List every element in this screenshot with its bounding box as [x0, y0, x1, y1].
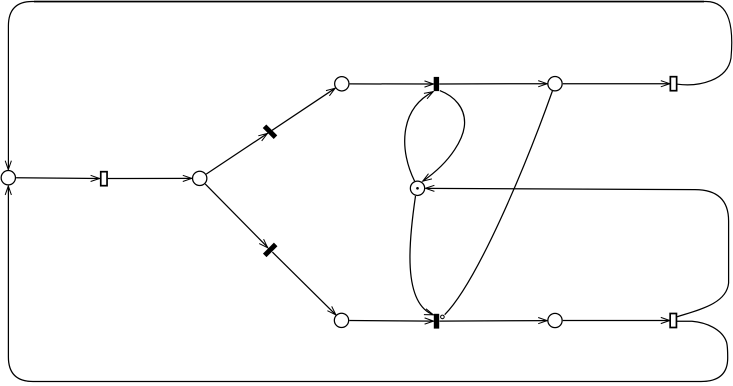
- inhibitor circle terminator at T5: [441, 315, 445, 319]
- arc T3 to P5 right curve: [423, 91, 465, 182]
- arc P4 to T6: [563, 83, 670, 85]
- arrowhead arc T2 to P3: [326, 88, 335, 96]
- transition T7 (white rectangle): [670, 314, 676, 328]
- arrowhead arc T4 to P6: [327, 306, 336, 315]
- arrowhead arc P6 to T5: [425, 318, 434, 324]
- place P3: [335, 77, 349, 91]
- arrowhead arc P2 to T2: [258, 133, 267, 141]
- wire T7 to P5 middle feedback loop: [426, 188, 729, 316]
- place P2: [193, 171, 207, 185]
- arc P7 to T7: [563, 320, 670, 322]
- arc T1 to P2: [108, 177, 192, 179]
- arc P2 to T2: [206, 133, 268, 174]
- arrowhead arc P4 to T6: [661, 81, 670, 87]
- arrowhead arc P1 to T1: [91, 175, 100, 181]
- place P5: [410, 181, 424, 195]
- transition T3 (black bar): [434, 77, 439, 91]
- place P7: [548, 313, 562, 327]
- arc P1 to T1: [16, 177, 100, 180]
- transition T2 (black bar): [263, 124, 277, 138]
- arc T4 to P6: [272, 252, 336, 315]
- arc T5 to P7: [439, 320, 547, 323]
- wire T7 to P1 bottom feedback loop: [8, 187, 727, 382]
- wire T6 to P1 top feedback loop: [8, 2, 731, 169]
- arc T3 to P4: [439, 83, 547, 85]
- arrowhead arc T5 to P7: [538, 318, 547, 324]
- arrowhead into P5 top-right: [423, 174, 432, 182]
- transition T5 (black bar): [434, 314, 439, 329]
- place P6: [334, 313, 348, 327]
- arrowhead arc T1 to P2: [183, 175, 192, 181]
- place P1: [1, 171, 15, 185]
- arc T2 to P3: [272, 88, 335, 130]
- transition T4 (black bar): [263, 243, 277, 257]
- arrowhead arc P2 to T4: [259, 239, 268, 248]
- arrowhead arc T3 to P4: [538, 81, 547, 87]
- transition T1 (white rectangle): [101, 172, 107, 186]
- arrowhead arc P3 to T3: [425, 81, 434, 87]
- transition T6 (white rectangle): [670, 77, 676, 91]
- arc P5 to T5 curve: [410, 196, 433, 315]
- arc P6 to T5: [349, 320, 433, 323]
- arrowhead into T5 upper-left: [424, 309, 434, 315]
- arrowhead into P5 from right: [425, 185, 434, 191]
- arrowhead into P1 from bottom: [5, 186, 11, 195]
- arc P2 to T4: [205, 184, 268, 248]
- arc P5 to T3 left curve: [405, 92, 434, 182]
- arrowhead into T3 bottom-left: [424, 92, 433, 99]
- arrowhead into P1 from top: [5, 161, 11, 170]
- arrowhead arc P7 to T7: [661, 317, 670, 323]
- inhibitor arc P4 to T5: [445, 91, 553, 315]
- place P4: [548, 77, 562, 91]
- arc P3 to T3: [350, 83, 434, 85]
- token in place P5: [416, 187, 419, 190]
